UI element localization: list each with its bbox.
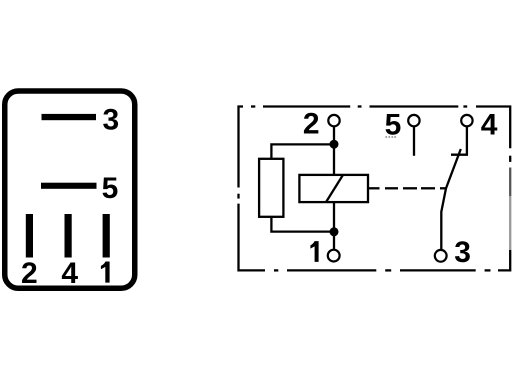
switch blade — [441, 149, 461, 250]
pin 5 pad — [41, 183, 97, 189]
pin 3 pad — [42, 114, 97, 120]
schematic phantom border bottom — [274, 269, 491, 271]
terminal pin 2 — [328, 115, 339, 126]
pin 4 pad — [65, 214, 72, 258]
schematic phantom border top — [239, 107, 511, 188]
terminal pin 1 — [328, 250, 340, 262]
coil diagonal — [326, 175, 343, 202]
wire pin 4 to fixed contact — [451, 126, 467, 154]
label 5 dotted underline — [386, 136, 396, 138]
wire resistor bottom to junction — [271, 217, 334, 232]
resistor — [259, 159, 283, 217]
pin 1 pad — [103, 214, 110, 258]
wire junction to resistor top — [271, 144, 334, 158]
node junction bottom — [330, 227, 339, 236]
svg-text:4: 4 — [481, 108, 498, 141]
mechanical link dashed — [368, 187, 446, 189]
terminal pin 5 — [408, 115, 419, 126]
terminal pin 3 — [435, 250, 447, 262]
svg-text:4: 4 — [61, 257, 78, 290]
wire pin2 to coil — [333, 126, 335, 175]
schematic phantom border left — [239, 194, 266, 271]
pin 2 pad — [26, 214, 33, 258]
relay socket outline — [5, 91, 135, 288]
wire coil bottom to pin1 — [333, 202, 335, 250]
node junction top — [330, 140, 339, 149]
svg-text:5: 5 — [102, 172, 119, 205]
svg-text:2: 2 — [21, 257, 38, 290]
wire pin 5 stub — [413, 126, 415, 155]
label 1 (schematic) — [310, 241, 318, 262]
schematic phantom border right — [498, 156, 510, 271]
label 1 (socket) — [101, 262, 110, 283]
terminal pin 4 — [461, 115, 472, 126]
svg-text:3: 3 — [454, 236, 471, 269]
relay coil K — [299, 175, 368, 202]
svg-text:2: 2 — [303, 108, 320, 141]
svg-text:3: 3 — [103, 103, 120, 136]
